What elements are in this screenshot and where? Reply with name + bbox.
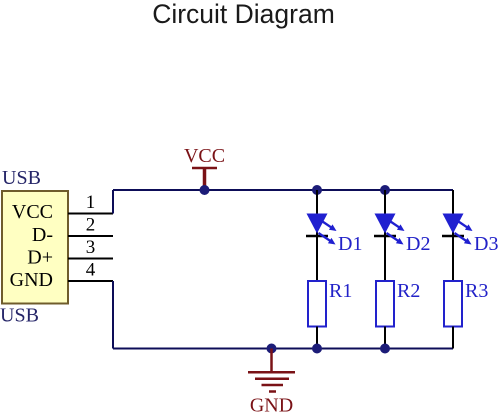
svg-text:R3: R3 <box>465 280 488 302</box>
svg-text:D3: D3 <box>474 233 498 255</box>
junction D2 top <box>380 185 390 195</box>
LED D1 <box>306 190 362 281</box>
wire R1 bottom pin <box>316 327 318 349</box>
junction VCC/top rail <box>200 185 210 195</box>
power port VCC <box>184 145 225 190</box>
svg-text:VCC: VCC <box>12 201 53 223</box>
LED D2 <box>374 190 430 281</box>
wire top rail <box>113 189 453 191</box>
wire bottom rail <box>113 348 453 350</box>
resistor R1 <box>308 280 352 349</box>
svg-text:D-: D- <box>32 224 53 246</box>
svg-text:VCC: VCC <box>184 145 225 167</box>
pin 2 lead <box>68 235 113 237</box>
LED D2 emission arrows <box>387 222 405 245</box>
LED D3 <box>442 190 498 281</box>
junction R2 bottom <box>380 344 390 354</box>
power port GND <box>248 349 295 414</box>
wire R3 bottom pin <box>452 327 454 349</box>
LED D1 emission arrows <box>319 222 337 245</box>
svg-text:4: 4 <box>86 260 96 281</box>
wire D2 anode/cathode pins <box>384 190 386 281</box>
LED D1 cathode bar <box>306 235 328 238</box>
connector J1 USB body <box>2 191 68 304</box>
svg-text:D2: D2 <box>406 233 430 255</box>
LED D3 emission arrows <box>455 222 473 245</box>
LED D3 anode triangle <box>443 214 464 234</box>
resistor R3 <box>444 280 488 349</box>
LED D2 cathode bar <box>374 235 396 238</box>
svg-text:2: 2 <box>86 215 96 236</box>
svg-text:GND: GND <box>250 395 293 414</box>
LED D2 anode triangle <box>375 214 396 234</box>
junction R1 bottom <box>312 344 322 354</box>
svg-text:USB: USB <box>0 305 39 327</box>
svg-text:3: 3 <box>86 237 96 258</box>
LED D3 cathode bar <box>442 235 464 238</box>
svg-text:R2: R2 <box>397 280 420 302</box>
svg-text:1: 1 <box>86 192 96 213</box>
svg-text:D1: D1 <box>338 233 362 255</box>
wire R2 bottom pin <box>384 327 386 349</box>
LED D1 anode triangle <box>307 214 328 234</box>
junction D1 top <box>312 185 322 195</box>
wire D3 anode/cathode pins <box>452 190 454 281</box>
svg-text:GND: GND <box>10 269 53 291</box>
svg-text:Circuit Diagram: Circuit Diagram <box>152 0 335 29</box>
pin 4 lead <box>68 280 113 282</box>
wire pin1 to top rail <box>112 190 114 214</box>
svg-text:R1: R1 <box>329 280 352 302</box>
pin 1 lead <box>68 213 113 215</box>
wire D1 anode/cathode pins <box>316 190 318 281</box>
svg-text:USB: USB <box>2 167 41 189</box>
pin 3 lead <box>68 258 113 260</box>
wire pin4 to bottom rail <box>112 281 114 349</box>
resistor R2 <box>376 280 420 349</box>
svg-text:D+: D+ <box>27 247 53 269</box>
junction GND <box>267 344 277 354</box>
